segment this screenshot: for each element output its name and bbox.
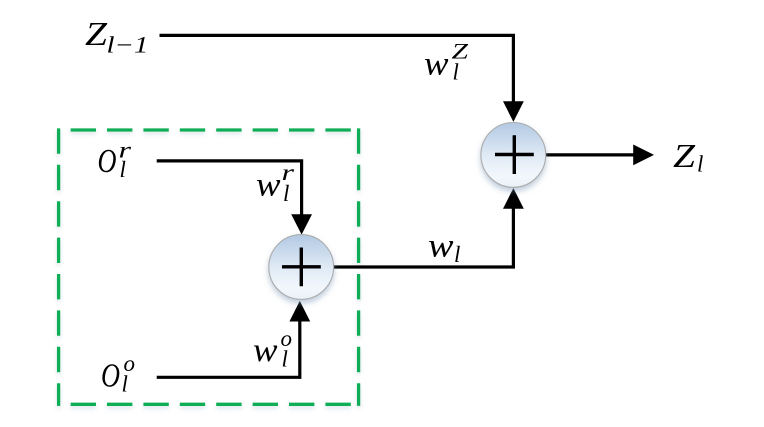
svg-text:l: l [697,152,703,177]
label w_l^Z [424,38,469,84]
svg-text:l−1: l−1 [107,33,149,58]
svg-text:w: w [424,46,449,83]
arrowhead output [633,145,654,166]
svg-text:w: w [256,167,281,204]
wire O_l^r to adder U2 [157,161,302,216]
label Z_l (output) [673,138,703,177]
arrowhead into U2 top [291,214,312,234]
arrowhead into U1 bottom [503,188,524,209]
arrowhead into U1 top [503,101,524,122]
arrowhead into U2 bottom [289,301,310,322]
svg-text:Z: Z [85,16,108,53]
label O_l^o [101,351,135,396]
svg-text:l: l [283,181,289,206]
wire U2 output to adder U1 [333,208,514,268]
svg-text:w: w [428,228,454,265]
label Z_{l-1} [85,16,149,57]
svg-text:Z: Z [673,138,696,175]
svg-text:O: O [101,358,120,395]
wire U1 output to Z_l [546,153,634,156]
svg-text:O: O [98,143,117,180]
label w_l^r [256,160,295,206]
label w_l^o [253,326,292,372]
adder U2 (inner summing node) [269,235,334,300]
svg-text:w: w [253,332,278,369]
adder U1 (top-right summing node) [481,122,546,187]
svg-text:l: l [120,157,126,182]
wire O_l^o to adder U2 [157,320,300,377]
svg-text:l: l [454,242,460,267]
wire Z_{l-1} to adder U1 [160,35,514,103]
svg-text:l: l [122,371,128,396]
svg-text:l: l [282,347,288,372]
svg-text:l: l [453,60,459,85]
label w_l [428,228,460,267]
dashed box (recurrent cell) [59,128,359,406]
label O_l^r [98,138,133,183]
